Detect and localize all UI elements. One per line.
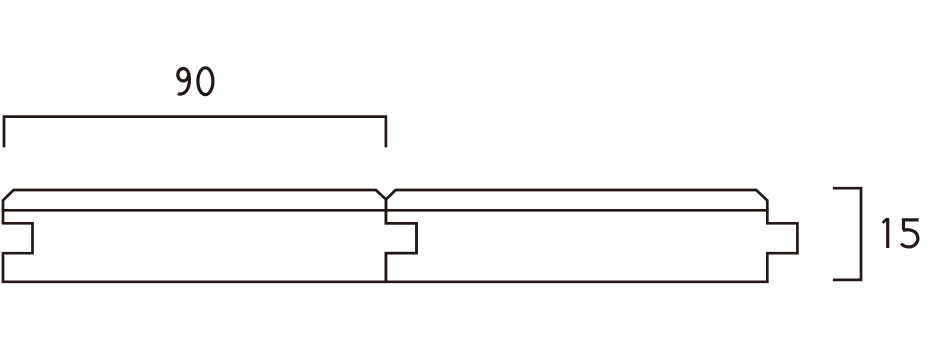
digit 0 xyxy=(198,68,213,95)
label 15 : digit 1 stem xyxy=(886,218,889,248)
left plank outline xyxy=(3,190,417,282)
digit 9 tail xyxy=(178,73,189,94)
digit 1 flag xyxy=(883,218,888,223)
digit 5 bowl xyxy=(901,230,918,247)
thickness bracket 15 xyxy=(834,188,861,280)
dimension line 90 xyxy=(4,117,386,146)
left plank face line xyxy=(3,209,386,212)
right plank face line xyxy=(386,209,767,212)
label 90 : digit 9 bowl xyxy=(178,69,189,81)
right plank outline xyxy=(386,190,798,282)
digit 5 top bar and left stroke xyxy=(904,220,919,230)
